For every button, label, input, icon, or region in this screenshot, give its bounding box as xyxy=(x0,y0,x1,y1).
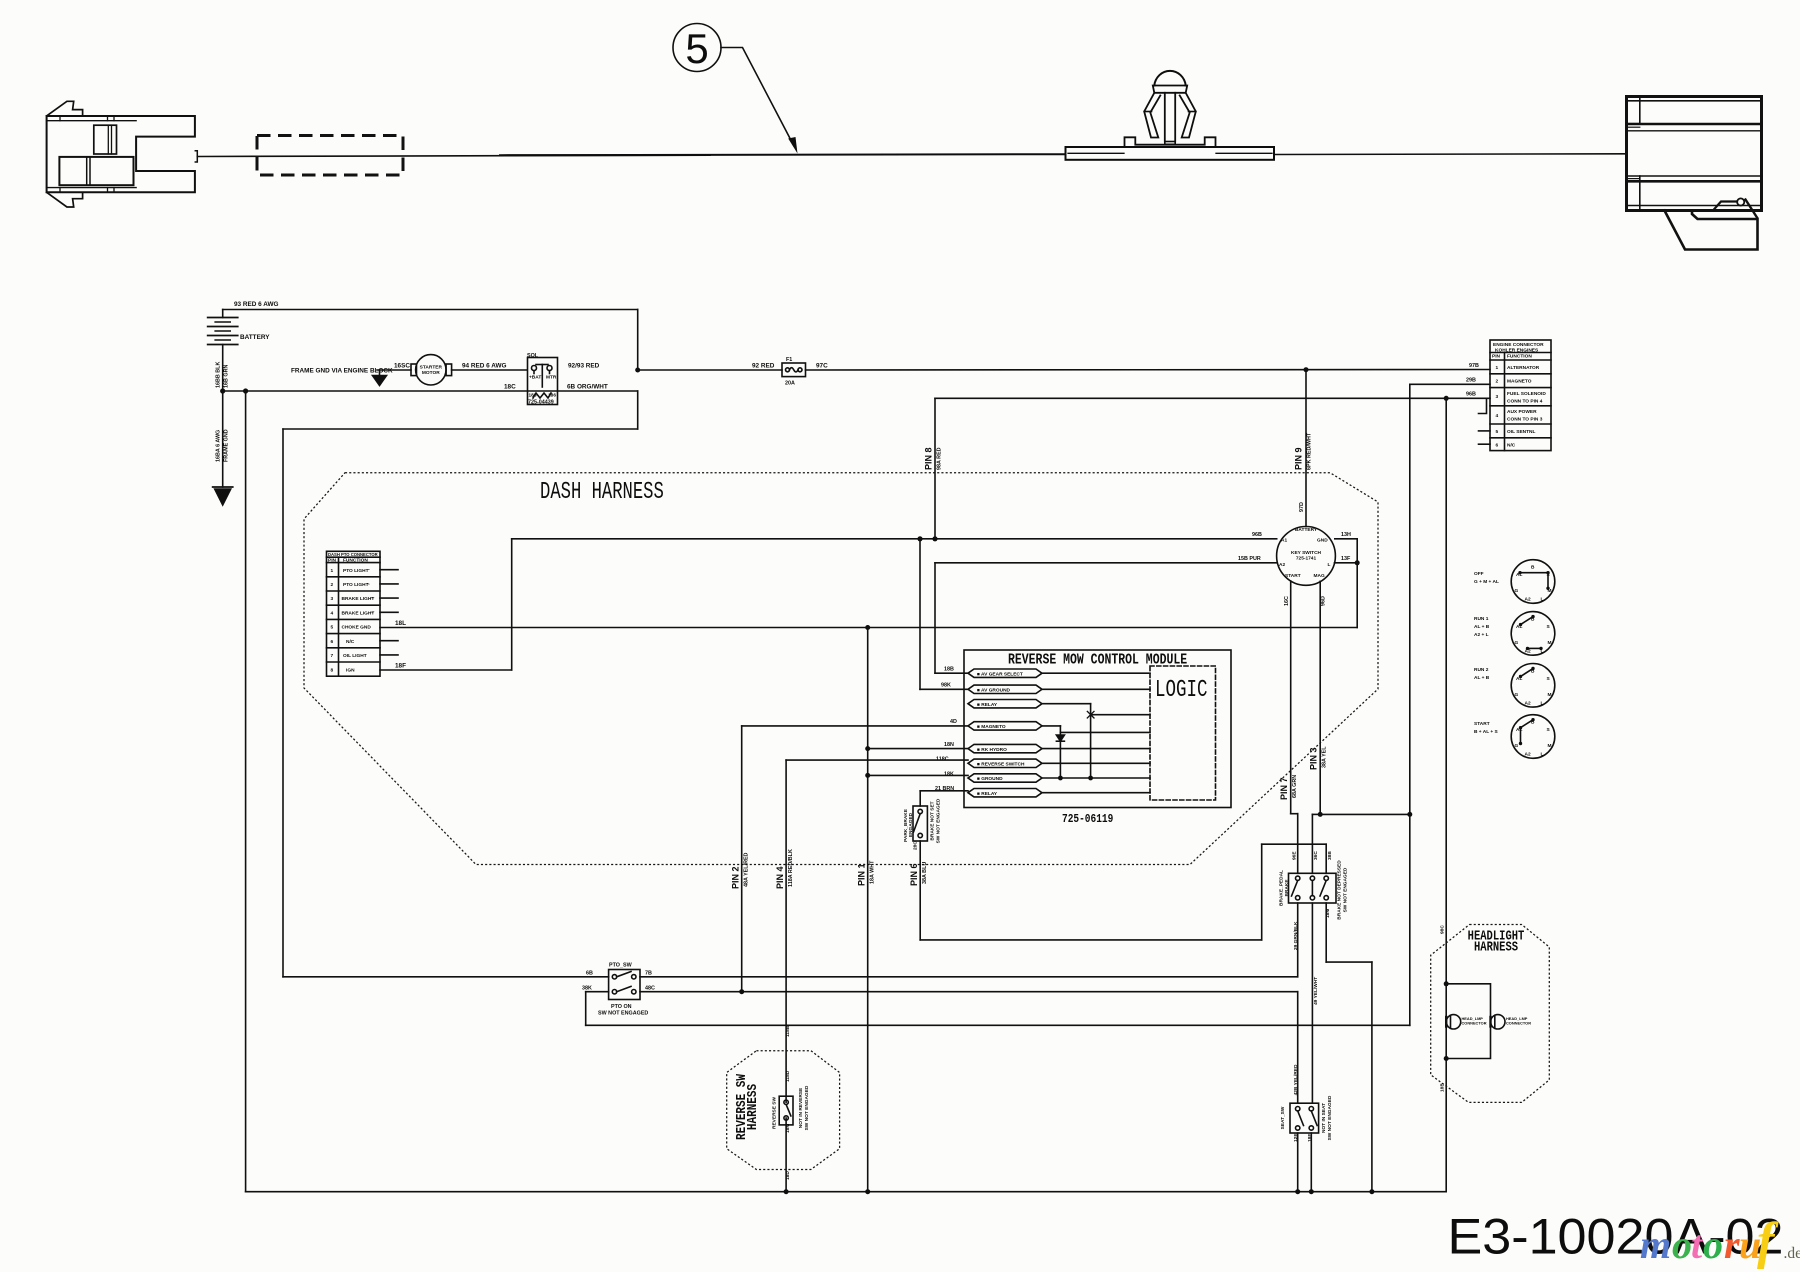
svg-text:13H: 13H xyxy=(1341,532,1351,538)
svg-text:29B: 29B xyxy=(1466,378,1476,384)
junction 96B / pin2 riser xyxy=(917,536,922,541)
svg-text:CONN TO PIN 3: CONN TO PIN 3 xyxy=(1507,417,1543,423)
wire 6B return run xyxy=(283,428,638,430)
svg-text:BRAKE LIGHT: BRAKE LIGHT xyxy=(342,596,375,602)
svg-text:48C: 48C xyxy=(645,986,655,992)
svg-text:AL + B: AL + B xyxy=(1474,624,1490,630)
svg-text:KOHLER ENGINES: KOHLER ENGINES xyxy=(1495,348,1539,354)
svg-text:97C: 97C xyxy=(816,363,828,370)
svg-text:■ RK HYDRO: ■ RK HYDRO xyxy=(977,747,1007,753)
svg-text:PIN 9: PIN 9 xyxy=(1294,447,1304,470)
module right wires + internals xyxy=(1042,673,1150,793)
junction bus / 18M xyxy=(1369,1189,1374,1194)
svg-text:M: M xyxy=(1548,692,1552,698)
svg-text:4: 4 xyxy=(331,611,334,617)
svg-text:■ GROUND: ■ GROUND xyxy=(977,776,1003,782)
connector J1 (left plug) xyxy=(47,101,198,207)
svg-text:G: G xyxy=(1515,692,1519,698)
callout 5 xyxy=(673,24,721,72)
svg-text:6: 6 xyxy=(1496,443,1499,449)
svg-text:START: START xyxy=(1474,721,1490,727)
svg-text:BRAKE NOT DEPRESSED: BRAKE NOT DEPRESSED xyxy=(1337,860,1343,920)
cable clip fastener xyxy=(1066,71,1275,160)
svg-text:5: 5 xyxy=(685,25,708,72)
svg-text:18F: 18F xyxy=(395,663,406,670)
svg-text:186: 186 xyxy=(548,393,556,399)
svg-text:OIL SENTNL: OIL SENTNL xyxy=(1507,429,1535,435)
wire 98K module pin 2 xyxy=(920,688,968,690)
wire PIN 6 vertical 38A BLU (upper) xyxy=(919,791,921,806)
svg-text:RUN 1: RUN 1 xyxy=(1474,616,1489,622)
svg-text:2: 2 xyxy=(331,582,334,588)
svg-text:MTR: MTR xyxy=(546,375,557,381)
svg-text:SW NOT ENGAGED: SW NOT ENGAGED xyxy=(804,1085,810,1130)
svg-text:G: G xyxy=(1515,743,1519,749)
svg-text:PIN 7: PIN 7 xyxy=(1279,777,1289,800)
svg-text:7: 7 xyxy=(331,653,334,659)
junction 18 net / PIN 1 riser xyxy=(865,625,870,630)
wire 7B PTO to brake pedal xyxy=(640,976,1298,978)
frame ground symbol xyxy=(213,487,233,505)
svg-text:118D: 118D xyxy=(785,1070,791,1082)
connector J2 (right receptacle) xyxy=(1627,97,1762,250)
junction bus / seat 18F xyxy=(1309,1189,1314,1194)
svg-text:L: L xyxy=(1541,752,1544,758)
wire harness lead (middle segment) xyxy=(500,154,1066,155)
svg-text:A2: A2 xyxy=(1525,752,1531,758)
svg-text:HARNESS: HARNESS xyxy=(1474,939,1518,955)
wire 97C to engine connector pin 1 xyxy=(806,369,1491,372)
svg-text:1: 1 xyxy=(1496,365,1499,371)
wire 18M drop to ground bus xyxy=(1371,962,1373,1192)
svg-text:N/C: N/C xyxy=(1507,443,1516,449)
svg-text:98C: 98C xyxy=(1440,925,1446,934)
svg-text:98K: 98K xyxy=(941,683,951,689)
svg-text:■ AV GROUND: ■ AV GROUND xyxy=(977,688,1011,694)
svg-text:16BB BLK: 16BB BLK xyxy=(216,362,222,388)
pin3-4 bracket + stubs xyxy=(1479,398,1491,444)
junction pin7 tap xyxy=(865,773,870,778)
svg-text:r: r xyxy=(1724,1222,1740,1267)
wire 96E into brake left pole xyxy=(1297,814,1299,874)
svg-text:~: ~ xyxy=(367,568,370,573)
junction bus / seat 12E xyxy=(1295,1189,1300,1194)
wire 29B magneto vertical xyxy=(1409,384,1411,1025)
svg-text:48A YEL/RED: 48A YEL/RED xyxy=(744,852,750,887)
svg-text:92 RED: 92 RED xyxy=(752,363,775,370)
svg-text:BATTERY: BATTERY xyxy=(1295,527,1318,533)
junction pin5 tap xyxy=(865,746,870,751)
wire 29 kill run to magneto vertical xyxy=(586,1024,1410,1026)
wire 18B module pin 1 xyxy=(935,672,968,674)
svg-text:SEAT_SW: SEAT_SW xyxy=(1280,1106,1286,1129)
wire 18F riser xyxy=(511,539,513,670)
wire 18F seat switch to bus xyxy=(1310,1133,1312,1192)
svg-text:L: L xyxy=(1541,700,1544,706)
junction 29B / jumper xyxy=(1407,812,1412,817)
svg-text:6B ORG/WHT: 6B ORG/WHT xyxy=(567,384,608,391)
wire 38B run to brake pedal xyxy=(920,939,1261,941)
svg-text:BRAKE_PEDAL: BRAKE_PEDAL xyxy=(1279,870,1285,906)
svg-text:97D: 97D xyxy=(1299,502,1305,512)
svg-text:93 RED 6 AWG: 93 RED 6 AWG xyxy=(234,301,279,308)
svg-text:38K: 38K xyxy=(582,986,592,992)
svg-text:m: m xyxy=(1640,1222,1671,1267)
svg-text:PTO_SW: PTO_SW xyxy=(609,963,633,969)
svg-text:G: G xyxy=(1515,640,1519,646)
svg-text:■ REVERSE SWITCH: ■ REVERSE SWITCH xyxy=(977,762,1025,768)
svg-text:3: 3 xyxy=(1496,394,1499,400)
svg-text:CONNECTOR: CONNECTOR xyxy=(1462,1021,1487,1026)
svg-text:■ AV GEAR SELECT: ■ AV GEAR SELECT xyxy=(977,671,1023,677)
wire 98A RED to fuel solenoid row xyxy=(935,397,1446,399)
wire PIN 3 jog xyxy=(1312,813,1320,815)
wire 18M jog right xyxy=(1326,961,1372,963)
svg-text:OFF: OFF xyxy=(1474,571,1484,577)
starter motor M1 xyxy=(411,355,527,385)
svg-text:~: ~ xyxy=(371,611,374,616)
wire frame ground bus vertical 16BA xyxy=(245,391,247,1192)
svg-text:92/93 RED: 92/93 RED xyxy=(568,363,600,370)
svg-text:PIN: PIN xyxy=(1492,354,1501,360)
svg-text:SW NOT ENGAGED: SW NOT ENGAGED xyxy=(1327,1095,1333,1140)
svg-text:DASH HARNESS: DASH HARNESS xyxy=(540,480,664,506)
svg-text:ENGINE CONNECTOR: ENGINE CONNECTOR xyxy=(1493,342,1544,348)
wire 36C into brake middle pole xyxy=(1311,814,1313,873)
junction ground bus tap xyxy=(243,388,248,393)
svg-text:DASH PTO CONNECTOR: DASH PTO CONNECTOR xyxy=(328,552,378,557)
svg-text:CONN TO PIN 4: CONN TO PIN 4 xyxy=(1507,399,1543,405)
wire 16C key START drop (PIN 7) xyxy=(1290,581,1292,814)
pin table stub wires xyxy=(380,570,398,655)
wire 93 RED right vertical xyxy=(637,310,639,371)
svg-text:725-06119: 725-06119 xyxy=(1062,813,1113,826)
wire 38B top run xyxy=(1262,843,1327,845)
wire 42B YEL/RED to seat switch xyxy=(1297,992,1299,1103)
svg-text:N/C: N/C xyxy=(346,639,355,645)
wire 18N module pin 5 xyxy=(868,748,968,750)
junction headlamp return xyxy=(1444,1056,1449,1061)
svg-text:38B: 38B xyxy=(1327,851,1333,860)
svg-text:G + M + AL: G + M + AL xyxy=(1474,579,1499,585)
svg-text:G: G xyxy=(1515,588,1519,594)
svg-text:6: 6 xyxy=(331,639,334,645)
wire riser to module pin 1 xyxy=(934,563,936,673)
svg-text:SW NOT ENGAGED: SW NOT ENGAGED xyxy=(936,798,942,843)
wire harness lead (right segment) xyxy=(1274,153,1626,156)
svg-text:49 YEL/WHT: 49 YEL/WHT xyxy=(1313,977,1319,1005)
svg-text:118B: 118B xyxy=(785,1025,791,1037)
svg-text:MAGNETO: MAGNETO xyxy=(1507,379,1532,385)
svg-text:PIN 3: PIN 3 xyxy=(1309,747,1319,770)
wire 18F from IGN pin 8 xyxy=(380,669,512,671)
svg-text:PTO LIGHT: PTO LIGHT xyxy=(343,582,369,588)
svg-text:8: 8 xyxy=(331,668,334,674)
junction 96B fuel solenoid xyxy=(1444,396,1449,401)
svg-text:28C: 28C xyxy=(913,841,919,850)
wire 38K drop xyxy=(585,992,587,1026)
svg-text:68A GRN: 68A GRN xyxy=(1292,775,1298,798)
wire 18L choke gnd run xyxy=(380,627,1357,629)
svg-text:+BAT: +BAT xyxy=(529,375,541,381)
svg-text:3: 3 xyxy=(331,596,334,602)
wire 28C below park brake switch xyxy=(919,841,921,940)
callout leader line xyxy=(721,48,794,147)
svg-text:BATTERY: BATTERY xyxy=(240,334,270,341)
svg-text:16BA 6 AWG: 16BA 6 AWG xyxy=(216,430,222,462)
wire 6B to PTO switch xyxy=(283,976,609,978)
wire 49 YEL/WHT to seat switch xyxy=(1311,903,1313,1103)
svg-text:HARNESS: HARNESS xyxy=(745,1083,760,1130)
svg-text:15B PUR: 15B PUR xyxy=(1238,556,1261,562)
svg-text:38A BLU: 38A BLU xyxy=(922,862,928,884)
junction headlamp feed xyxy=(1444,981,1449,986)
svg-text:18B: 18B xyxy=(944,667,954,673)
junction bus / PIN 1 xyxy=(865,1189,870,1194)
svg-text:185: 185 xyxy=(529,393,537,399)
wire 13H from key GND xyxy=(1335,538,1357,540)
svg-text:.de: .de xyxy=(1784,1245,1800,1262)
svg-text:o: o xyxy=(1672,1222,1692,1267)
svg-text:FRAME GND: FRAME GND xyxy=(224,429,230,462)
wire 29 GRN/BLK brake left pole down xyxy=(1297,903,1299,977)
junction 13F / 18L riser xyxy=(1355,560,1360,565)
wire PIN 2 vertical 48A YEL/RED xyxy=(741,726,743,992)
wire PIN 7 jog xyxy=(1291,813,1298,815)
svg-text:■ RELAY: ■ RELAY xyxy=(977,702,998,708)
junction PIN 3 / magneto jumper xyxy=(1318,812,1323,817)
svg-text:ALTERNATOR: ALTERNATOR xyxy=(1507,365,1540,371)
svg-text:BRAKE: BRAKE xyxy=(1284,879,1290,897)
svg-text:725-04439: 725-04439 xyxy=(528,400,554,406)
svg-text:PIN 6: PIN 6 xyxy=(909,863,919,886)
junction PIN 2 / 48C xyxy=(739,989,744,994)
svg-text:B + AL + S: B + AL + S xyxy=(1474,729,1499,735)
battery xyxy=(208,310,238,488)
svg-text:94 RED 6 AWG: 94 RED 6 AWG xyxy=(462,363,507,370)
wire PIN 1 riser 18A WHT xyxy=(867,628,869,1192)
svg-text:A2: A2 xyxy=(1525,700,1531,706)
wire 93 RED 6 AWG (top) xyxy=(223,309,638,311)
callout arrowhead xyxy=(788,137,797,154)
wire headlamp loop xyxy=(1446,984,1490,1059)
svg-text:MOTOR: MOTOR xyxy=(422,370,440,376)
svg-text:OIL LIGHT: OIL LIGHT xyxy=(343,653,367,659)
svg-text:16B GRN: 16B GRN xyxy=(224,365,230,388)
svg-text:CONNECTOR: CONNECTOR xyxy=(1506,1021,1531,1026)
svg-text:18B: 18B xyxy=(1440,1083,1446,1092)
wire 29B magneto row xyxy=(1410,383,1490,385)
junction diode leg / ground pin xyxy=(1058,776,1063,781)
svg-text:ENGAGED: ENGAGED xyxy=(908,812,914,837)
wire 96B into table row 3 xyxy=(1446,397,1490,399)
svg-text:18A WHT: 18A WHT xyxy=(870,860,876,884)
heat shrink (dashed box) xyxy=(257,136,403,176)
svg-text:PIN 8: PIN 8 xyxy=(924,447,934,470)
svg-text:FRAME GND VIA ENGINE BLOCK: FRAME GND VIA ENGINE BLOCK xyxy=(291,368,393,375)
wire 18D reverse switch to bus xyxy=(785,1118,787,1192)
wire 118C module pin 6 xyxy=(786,759,968,761)
svg-text:■ RELAY: ■ RELAY xyxy=(977,791,998,797)
svg-text:98A RED: 98A RED xyxy=(937,447,943,470)
svg-text:36C: 36C xyxy=(1313,851,1319,860)
svg-text:5: 5 xyxy=(331,625,334,631)
wire PIN 8 riser 98A RED xyxy=(934,398,936,539)
junction relay leg / ground pin xyxy=(1088,776,1093,781)
fuse F1 20A xyxy=(782,363,806,377)
svg-text:~: ~ xyxy=(371,597,374,602)
svg-text:FUNCTION: FUNCTION xyxy=(343,558,368,564)
svg-text:A2: A2 xyxy=(1279,562,1285,568)
svg-text:PTO LIGHT: PTO LIGHT xyxy=(343,568,369,574)
solenoid relay K1 xyxy=(528,358,558,405)
svg-text:97B: 97B xyxy=(1469,363,1479,369)
wire 18M brake right pole down xyxy=(1325,903,1327,962)
svg-text:L: L xyxy=(1328,562,1331,568)
svg-text:~: ~ xyxy=(367,583,370,588)
svg-text:GND: GND xyxy=(1317,538,1328,544)
svg-text:20A: 20A xyxy=(785,381,795,387)
wire 13F from key L xyxy=(1335,562,1358,564)
svg-text:18K: 18K xyxy=(944,771,954,777)
wire 6B to PTO switch vertical xyxy=(282,429,284,977)
svg-text:STARTER: STARTER xyxy=(420,365,443,371)
svg-text:13F: 13F xyxy=(1341,556,1351,562)
junction node 92/93 RED xyxy=(635,368,640,373)
svg-text:o: o xyxy=(1703,1222,1723,1267)
svg-text:7B: 7B xyxy=(645,971,652,977)
svg-text:NOT IN REVERSE: NOT IN REVERSE xyxy=(798,1087,804,1128)
svg-text:PIN 4: PIN 4 xyxy=(775,866,785,889)
svg-text:MAG: MAG xyxy=(1314,573,1325,579)
junction bus / reverse sw xyxy=(784,1189,789,1194)
wire PIN 4 vertical 118A RED/BLK xyxy=(785,760,787,1102)
wire 48C PTO bottom right run xyxy=(640,991,1298,993)
svg-text:A1: A1 xyxy=(1281,538,1287,544)
wire 96D key MAG drop (PIN 3) xyxy=(1319,581,1321,814)
svg-text:A2: A2 xyxy=(1525,597,1531,603)
svg-text:6PK RED/WHT: 6PK RED/WHT xyxy=(1307,432,1313,470)
svg-text:START: START xyxy=(1285,573,1301,579)
wire 21 BRN module pin 8 xyxy=(920,790,968,792)
wire 15B PUR to key A2 xyxy=(935,562,1277,564)
svg-text:REVERSE SW: REVERSE SW xyxy=(772,1097,778,1129)
wire ground bus 18 xyxy=(246,1191,1447,1193)
svg-text:4: 4 xyxy=(1496,413,1499,419)
svg-text:LOGIC: LOGIC xyxy=(1155,678,1207,704)
svg-text:SW NOT ENGAGED: SW NOT ENGAGED xyxy=(1343,867,1349,912)
svg-text:RUN 2: RUN 2 xyxy=(1474,667,1489,673)
svg-text:1: 1 xyxy=(331,568,334,574)
wire 12E seat switch to bus xyxy=(1297,1133,1299,1192)
module pin arrows xyxy=(968,669,1042,797)
svg-text:18L: 18L xyxy=(395,620,406,627)
svg-text:CHOKE GND: CHOKE GND xyxy=(342,625,372,631)
wire 38B riser xyxy=(1261,844,1263,940)
svg-text:118A RED/BLK: 118A RED/BLK xyxy=(788,849,794,887)
junction node 97 xyxy=(1304,367,1309,372)
svg-text:BRAKE NOT SET: BRAKE NOT SET xyxy=(930,801,936,840)
svg-text:16C: 16C xyxy=(1284,596,1290,606)
svg-text:AUX POWER: AUX POWER xyxy=(1507,409,1537,415)
svg-text:IGN: IGN xyxy=(346,668,355,674)
dash connector pin table xyxy=(327,551,381,676)
svg-text:A2 + L: A2 + L xyxy=(1474,632,1489,638)
svg-text:■ MAGNETO: ■ MAGNETO xyxy=(977,724,1006,730)
svg-text:SW NOT ENGAGED: SW NOT ENGAGED xyxy=(598,1011,648,1017)
svg-text:PIN 1: PIN 1 xyxy=(857,863,867,886)
wire riser to module pin 2 xyxy=(919,539,921,690)
wire 38K PTO bottom left xyxy=(586,991,609,993)
wire 96B to key A1 xyxy=(512,538,1277,540)
svg-text:FUEL SOLENOID: FUEL SOLENOID xyxy=(1507,391,1546,397)
wire 92 RED to fuse xyxy=(638,369,782,371)
svg-text:725-1741: 725-1741 xyxy=(1296,556,1317,562)
svg-text:KEY SWITCH: KEY SWITCH xyxy=(1291,550,1322,556)
svg-text:4D: 4D xyxy=(950,719,957,725)
svg-text:96E: 96E xyxy=(1292,851,1298,860)
wire 96B long vertical to headlight/bus xyxy=(1445,398,1447,1191)
svg-text:PTO ON: PTO ON xyxy=(611,1004,632,1010)
svg-text:96D: 96D xyxy=(1321,596,1327,606)
junction battery negative / ground bus xyxy=(220,388,225,393)
svg-text:M: M xyxy=(1548,640,1552,646)
headlamps xyxy=(1446,1015,1505,1029)
svg-text:L: L xyxy=(1541,597,1544,603)
svg-text:B: B xyxy=(1531,565,1535,571)
svg-text:AL + B: AL + B xyxy=(1474,675,1490,681)
wire harness lead (left segment) xyxy=(197,155,710,156)
svg-text:2: 2 xyxy=(1496,379,1499,385)
wire 6B ORG/WHT drop xyxy=(637,391,639,429)
svg-text:FUNCTION: FUNCTION xyxy=(1507,354,1532,360)
svg-text:18N: 18N xyxy=(944,742,954,748)
svg-text:6B: 6B xyxy=(586,971,593,977)
wire 18K module pin 7 xyxy=(868,774,968,776)
svg-text:96B: 96B xyxy=(1252,532,1262,538)
module left wire labels xyxy=(935,667,957,793)
svg-text:BRAKE LIGHT: BRAKE LIGHT xyxy=(342,611,375,617)
wire PIN 9 riser 6PK RED/WHT xyxy=(1305,370,1307,527)
svg-text:NOT IN SEAT: NOT IN SEAT xyxy=(1321,1103,1327,1133)
svg-text:42B YEL/RED: 42B YEL/RED xyxy=(1293,1064,1299,1095)
svg-text:F1: F1 xyxy=(786,357,792,363)
svg-text:18C: 18C xyxy=(504,384,516,391)
svg-text:SOL: SOL xyxy=(527,353,539,359)
svg-text:38A YEL: 38A YEL xyxy=(1322,746,1328,768)
svg-text:PIN: PIN xyxy=(328,558,337,564)
wire 4D module pin 4 xyxy=(742,725,968,727)
wire magneto jumper 29 xyxy=(1320,813,1410,815)
svg-text:96B: 96B xyxy=(1466,392,1476,398)
wire 38B into brake right pole xyxy=(1325,844,1327,873)
svg-text:16SC: 16SC xyxy=(394,363,410,370)
junction 96B / PIN 8 riser xyxy=(932,536,937,541)
svg-text:5: 5 xyxy=(1496,429,1499,435)
wire 18C / 6B ORG/WHT (second row) xyxy=(223,390,638,392)
wire 18L riser at key switch xyxy=(1356,539,1358,628)
svg-text:M: M xyxy=(1548,743,1552,749)
svg-text:PIN 2: PIN 2 xyxy=(731,866,741,889)
